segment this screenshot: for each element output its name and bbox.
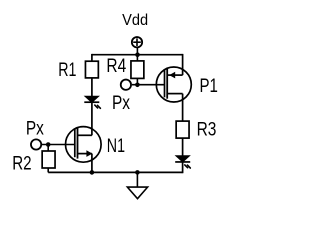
wire P1 drain to R3 — [182, 94, 184, 122]
svg-text:Vdd: Vdd — [122, 12, 148, 29]
wire N1 source down — [91, 154, 93, 173]
wire bottom rail — [48, 171, 182, 173]
resistor R4 — [131, 61, 144, 79]
svg-text:R4: R4 — [106, 56, 126, 77]
LED D2 (right) — [175, 156, 190, 168]
LED D1 (left) — [84, 96, 100, 108]
node R4/gate junction — [135, 83, 140, 88]
ground — [127, 172, 147, 198]
svg-text:R1: R1 — [58, 60, 76, 81]
svg-text:Px: Px — [112, 93, 130, 114]
terminal Px (left input) — [31, 139, 41, 149]
wire top rail — [92, 54, 183, 56]
supply symbol Vdd — [132, 37, 142, 47]
svg-text:N1: N1 — [107, 136, 125, 157]
svg-text:P1: P1 — [200, 76, 218, 97]
wire rail to R1 — [91, 54, 93, 61]
terminal Px (middle) — [121, 80, 131, 90]
transistor N1 (NMOS) — [66, 127, 102, 163]
wire node to R2 — [47, 145, 49, 152]
node gate/R2 junction — [46, 142, 51, 147]
wire LED2 to bottom rail — [182, 162, 184, 173]
resistor R3 — [176, 121, 189, 138]
wire supply to rail — [136, 48, 138, 55]
svg-text:R3: R3 — [197, 119, 217, 140]
wire rail to R4 — [136, 55, 138, 61]
svg-text:R2: R2 — [12, 153, 31, 174]
svg-text:Px: Px — [26, 119, 44, 140]
transistor P1 (PMOS) — [156, 67, 191, 102]
wire gate node to P1 gate — [132, 84, 165, 86]
wire Px to N1 gate — [42, 144, 75, 146]
node Vdd rail junction — [135, 52, 140, 57]
node ground junction — [135, 170, 140, 175]
node N1 source junction — [90, 170, 95, 175]
wire LED1 to N1 drain — [91, 102, 93, 135]
wire P1 source to rail — [182, 54, 184, 75]
resistor R2 — [42, 151, 55, 168]
N1 source arrow — [86, 150, 92, 157]
resistor R1 — [85, 61, 98, 78]
wire R2 to bottom rail — [47, 168, 49, 172]
wire R4 to gate node — [136, 78, 138, 84]
wire R1 to LED1 — [91, 78, 93, 97]
P1 source arrow — [169, 72, 175, 79]
wire R3 to LED2 — [182, 138, 184, 156]
